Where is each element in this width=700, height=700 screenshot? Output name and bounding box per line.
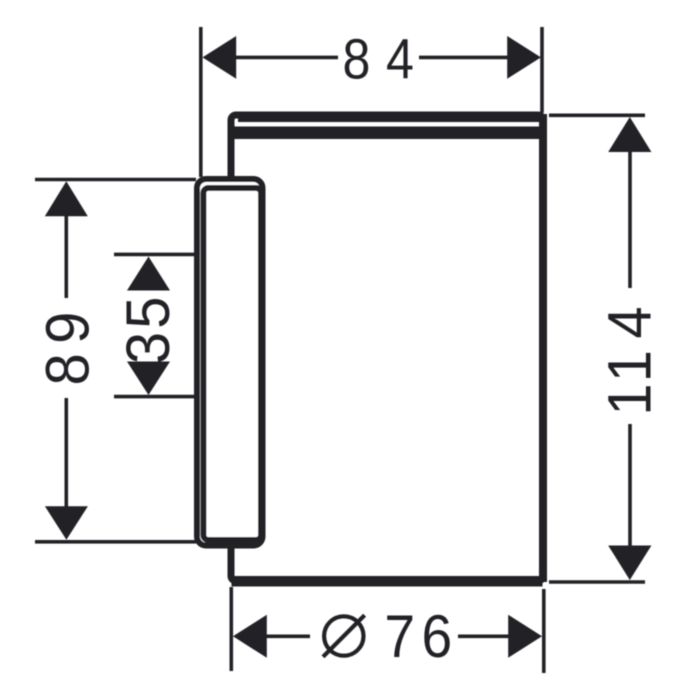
arrow 84 right [507,36,541,79]
dim 114 ext bottom [549,580,645,584]
svg-text:4: 4 [595,306,664,338]
svg-text:7: 7 [384,604,415,671]
dim 35 ext top [114,253,196,257]
dim 76 ext right [542,589,546,673]
dim 76 line [262,634,310,638]
dim 89 line [65,216,69,298]
arrow 35 top [127,257,170,291]
svg-text:1: 1 [595,383,664,415]
dim 76 ext left [230,587,234,671]
dim 114 line [628,150,632,288]
arrow 35 bottom [127,362,170,396]
svg-text:5: 5 [114,296,183,328]
wall plate outer [197,179,263,546]
dim 89 ext top [35,178,196,182]
body right edge thick [539,114,547,582]
dim 84 line [234,56,338,60]
body top inner line [238,117,539,122]
body rim underside band [231,127,544,140]
svg-text:3: 3 [114,332,183,364]
dim 84 ext left [199,27,203,177]
dim 84 ext right [540,27,544,113]
arrow 89 bottom [45,506,88,540]
body bottom thick edge [232,576,543,587]
wall plate inner [203,188,261,540]
svg-text:9: 9 [33,312,102,344]
svg-text:4: 4 [386,28,414,92]
svg-text:6: 6 [422,604,453,671]
svg-text:8: 8 [343,28,371,92]
arrow 76 right [508,615,542,658]
arrow 89 top [45,181,88,216]
svg-text:8: 8 [33,353,102,385]
body outline [231,115,543,581]
arrow 114 bottom [608,546,651,581]
dim 35 ext bottom [114,395,196,399]
svg-text:1: 1 [595,350,664,382]
arrow 114 top [608,117,651,152]
dim 89 ext bottom [35,540,196,544]
dim 114 ext top [549,114,645,118]
arrow 84 left [203,36,237,79]
arrow 76 left [233,615,267,658]
label 76 diameter symbol [323,615,365,657]
